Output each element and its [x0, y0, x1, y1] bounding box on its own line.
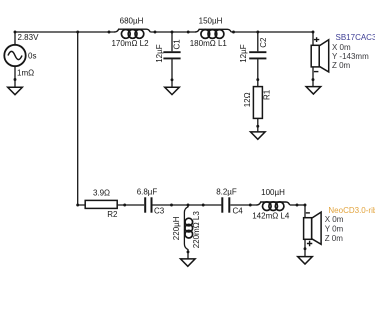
svg-text:12µF: 12µF	[239, 44, 248, 63]
svg-text:C2: C2	[259, 37, 268, 48]
svg-text:C1: C1	[172, 39, 181, 50]
svg-text:180mΩ L1: 180mΩ L1	[190, 39, 228, 48]
svg-text:142mΩ L4: 142mΩ L4	[252, 211, 290, 220]
svg-text:8.2µF: 8.2µF	[216, 188, 237, 197]
svg-text:Y 0m: Y 0m	[325, 224, 344, 233]
svg-text:Z 0m: Z 0m	[325, 234, 344, 243]
svg-text:X 0m: X 0m	[332, 43, 351, 52]
svg-text:2.83V: 2.83V	[18, 33, 40, 42]
svg-text:Y -143mm: Y -143mm	[332, 52, 369, 61]
svg-text:C4: C4	[233, 207, 244, 216]
svg-text:12Ω: 12Ω	[243, 92, 252, 107]
svg-text:Z 0m: Z 0m	[332, 61, 351, 70]
svg-text:220µH: 220µH	[172, 216, 181, 240]
svg-text:100µH: 100µH	[261, 188, 285, 197]
svg-text:NeoCD3.0-rib: NeoCD3.0-rib	[328, 206, 375, 215]
svg-text:680µH: 680µH	[120, 17, 144, 26]
svg-text:0s: 0s	[28, 51, 36, 60]
svg-text:X 0m: X 0m	[325, 215, 344, 224]
svg-text:R1: R1	[262, 89, 271, 100]
svg-text:12µF: 12µF	[155, 44, 164, 63]
svg-text:170mΩ L2: 170mΩ L2	[111, 39, 149, 48]
svg-text:150µH: 150µH	[199, 17, 223, 26]
svg-text:C3: C3	[154, 207, 165, 216]
svg-text:1mΩ: 1mΩ	[17, 68, 34, 77]
svg-text:6.8µF: 6.8µF	[137, 188, 158, 197]
svg-text:SB17CAC35: SB17CAC35	[336, 33, 375, 42]
svg-text:R2: R2	[107, 210, 118, 219]
svg-text:220mΩ L3: 220mΩ L3	[192, 211, 201, 249]
svg-text:3.9Ω: 3.9Ω	[93, 189, 110, 198]
